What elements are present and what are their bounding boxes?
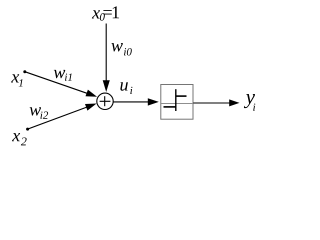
hard limiter box [161, 85, 193, 120]
wire summer to limiter [113, 101, 149, 103]
label w_i2 [30, 107, 48, 119]
summer circle [97, 93, 113, 109]
input x1 label [11, 74, 23, 86]
label w_i0 [111, 43, 131, 55]
input x2 label [12, 133, 27, 145]
plus sign inside summer: vertical bar [104, 96, 106, 106]
wire x2 to summer [28, 107, 88, 129]
arrowhead x2 into summer [85, 104, 97, 111]
limiter low level segment [164, 106, 176, 108]
limiter high level segment [176, 95, 187, 97]
label w_i1 [54, 70, 72, 81]
arrowhead into limiter [148, 98, 159, 105]
wire from x0 down to summer [105, 24, 107, 82]
limiter vertical axis / step jump [175, 89, 177, 111]
node dot at x2 [26, 128, 29, 131]
output label y_i [244, 94, 255, 111]
wire x1 to summer [25, 72, 89, 94]
arrowhead x1 into summer [86, 90, 98, 97]
label u_i [120, 82, 132, 94]
node x0 label "x0=1" [92, 6, 119, 20]
output arrowhead [229, 99, 239, 106]
limiter horizontal axis (gray) [161, 103, 193, 105]
node dot at x1 [23, 70, 26, 73]
plus sign inside summer: horizontal bar [100, 100, 111, 102]
arrowhead into summer from top [103, 80, 110, 92]
wire limiter to output [193, 102, 230, 104]
